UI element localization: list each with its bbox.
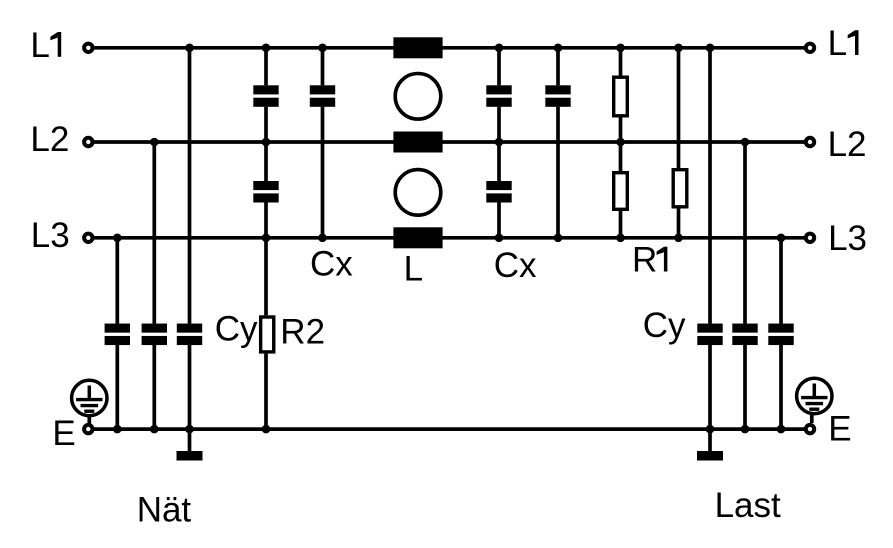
svg-text:L: L <box>30 26 49 65</box>
svg-text:R2: R2 <box>280 313 325 352</box>
svg-text:L2: L2 <box>828 125 867 164</box>
svg-text:R: R <box>632 241 657 280</box>
svg-text:Cx: Cx <box>310 244 353 283</box>
svg-text:L: L <box>828 24 847 63</box>
svg-text:E: E <box>828 410 851 449</box>
svg-text:L3: L3 <box>828 219 867 258</box>
svg-text:L2: L2 <box>30 120 69 159</box>
svg-text:L3: L3 <box>31 216 70 255</box>
svg-text:Nät: Nät <box>137 491 192 530</box>
svg-text:E: E <box>52 414 75 453</box>
svg-text:Cy: Cy <box>215 310 258 349</box>
svg-text:Cy: Cy <box>643 306 686 345</box>
svg-text:Last: Last <box>715 486 781 525</box>
svg-text:L: L <box>404 250 423 289</box>
svg-text:Cx: Cx <box>494 246 537 285</box>
